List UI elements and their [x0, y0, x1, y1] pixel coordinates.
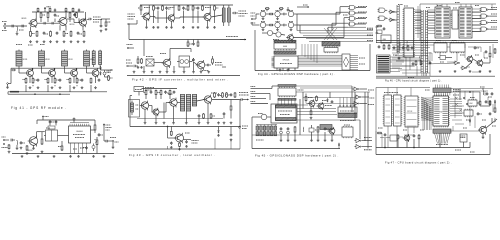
- wire - panel C bottom rail: [127, 75, 240, 77]
- svg-text:Fig 43 - GPS IF converter , lo: Fig 43 - GPS IF converter , local oscill…: [129, 153, 215, 157]
- transistor Q71: [318, 103, 324, 109]
- ground - panel B bottom grounds: [21, 155, 23, 156]
- diode D10: [327, 100, 329, 102]
- wire - H address fan diagonal: [421, 97, 432, 101]
- resistor R53: [169, 90, 171, 91]
- crystal X90 left: [377, 30, 382, 34]
- transistor Q51 buffer: [153, 109, 159, 115]
- coil L90 right row: [482, 90, 485, 92]
- resistor R95 right: [479, 100, 481, 101]
- input terminal panel B: [3, 139, 5, 141]
- capacitor C57 mid: [223, 112, 225, 113]
- resistor R36: [202, 5, 204, 6]
- resistor R56 right: [222, 92, 224, 93]
- transistor Q91: [477, 60, 483, 66]
- IC U32 DIP 4046: [274, 43, 296, 49]
- panel C : IF converter multiplier and mixer: [0, 0, 1, 1]
- wire - data bus panel E: [298, 55, 342, 57]
- resistor R1a above rail: [37, 7, 39, 10]
- ground - panel D mid: [144, 122, 146, 123]
- wire - crossing mesh: [324, 28, 334, 40]
- label - CN6: [453, 89, 461, 91]
- resistor R13 row2: [25, 78, 27, 79]
- wire - H bottom-left links: [380, 137, 390, 139]
- wire - RF input lead: [3, 25, 27, 27]
- transistor Q3 IF amp: [27, 70, 34, 77]
- connector block CN5 ribbon (dark): [377, 55, 391, 73]
- gate G27 right: [481, 27, 487, 31]
- wire - G bus DIP feeds: [428, 9, 435, 11]
- resistor R15 row2: [47, 78, 49, 79]
- pin hatch - above U20: [69, 124, 71, 126]
- wire - panel B top rail: [37, 119, 95, 121]
- capacitor C8 bias row: [56, 32, 58, 33]
- label - under IC pins: [73, 148, 77, 150]
- resistor R20 input shunt: [8, 144, 10, 145]
- gate G10 left: [261, 114, 267, 120]
- transistor Q2b third RF stage: [80, 19, 87, 26]
- IC U53 narrow mid: [452, 10, 458, 29]
- resistor R18 row2: [76, 78, 78, 79]
- label - panel F input stubs: [251, 86, 256, 88]
- diode D2 detector: [100, 73, 102, 75]
- wire - panel F bottom rail: [252, 148, 340, 150]
- wire - H DIP bottom drops: [387, 126, 389, 148]
- resistor R70 row1: [268, 13, 271, 15]
- wire - panel D bottom rail: [130, 126, 240, 128]
- wire - row2 verticals to rail: [25, 85, 27, 92]
- mixer Q66 mid: [291, 14, 293, 16]
- internal hatch - U61: [395, 98, 400, 100]
- resistor R92 above CN5: [388, 44, 390, 45]
- capacitor C94 mid lower: [402, 46, 404, 47]
- svg-text:M1331: M1331: [45, 59, 50, 61]
- ground - under L1: [16, 33, 18, 34]
- transistor Q69 lower left: [288, 35, 294, 41]
- panel G : CPU board circuit part 1: [0, 0, 1, 1]
- wire - G top supply rail: [420, 3, 496, 5]
- coil L51 hatched: [186, 95, 190, 112]
- wire - Q34 collector up: [169, 49, 171, 61]
- transistor Q96 bottom left: [404, 135, 410, 141]
- coil L52 hatched: [192, 95, 196, 107]
- oscillator stage Q60 row1: [260, 11, 265, 16]
- transistor Q1 BF981 RF amp: [30, 20, 37, 27]
- wire - row1 feed: [253, 18, 256, 20]
- transistor Q35 lower output: [197, 61, 205, 69]
- wire - row2 bottom rail: [8, 91, 107, 93]
- pin hatch left of U34: [272, 56, 275, 58]
- label - bus right ticks: [367, 29, 373, 31]
- coil L2 (slim can): [92, 51, 95, 65]
- transistor Q2 BF959 second RF amp: [59, 18, 67, 26]
- resistor R54a: [168, 96, 170, 98]
- IF transformer T4 (hatched can): [84, 51, 90, 66]
- capacitor C50: [150, 91, 152, 92]
- wire - interstage line: [37, 22, 59, 24]
- capacitor C36 lower left: [133, 65, 135, 68]
- gate G26 right: [481, 21, 487, 25]
- coil L50 hatched: [180, 95, 184, 112]
- label - stage scribbles row2: [261, 21, 265, 23]
- wire - G address bus tall IC to DIPs: [415, 9, 421, 11]
- IF transformer T1 (hatched can): [16, 51, 22, 66]
- resistor R97 bottom left: [376, 132, 379, 134]
- label - panel E input left: [251, 12, 256, 14]
- capacitor C70a bottom: [280, 127, 282, 128]
- ground - panel G bottoms: [439, 70, 441, 71]
- transistor Q54 divider: [176, 134, 184, 142]
- IC U36 small DIP right: [324, 48, 338, 53]
- wire - panel D mid links: [149, 105, 152, 107]
- label - 1PPS output: [192, 140, 199, 142]
- svg-text:BF981: BF981: [22, 18, 27, 20]
- resistor R19 row2: [90, 78, 92, 79]
- wire - feeds into U40: [262, 88, 272, 90]
- resistor R61 bottom: [170, 130, 172, 133]
- gate G12 output inverter: [356, 145, 360, 149]
- capacitor C52a: [173, 91, 175, 92]
- wire - U34 drops to rail: [276, 68, 278, 71]
- resistor R16 row2: [54, 78, 56, 79]
- supply arrow right: [103, 124, 105, 128]
- IC U51 tall CPU 80C32: [404, 8, 414, 57]
- capacitor C95 right: [486, 92, 488, 93]
- resistor R14 row2: [32, 78, 34, 79]
- transistor Q30 oscillator: [143, 13, 150, 20]
- svg-text:BF981: BF981: [28, 150, 33, 152]
- supply arrow +9V: [44, 8, 46, 13]
- label - lower left cluster: [126, 59, 131, 61]
- resistor R9 bias row: [50, 31, 52, 32]
- resistor R50: [145, 90, 147, 91]
- IF transformer T3 (hatched can): [62, 51, 68, 66]
- label - mid rail arrow to RF module: [226, 36, 238, 38]
- IC U65 small right2: [464, 110, 473, 116]
- resistor R33: [178, 5, 180, 6]
- svg-text:V40: V40: [439, 111, 442, 113]
- transistor Q95 right mid: [480, 127, 487, 134]
- resistor R5 under rail: [76, 11, 78, 14]
- capacitor C5 output coupling: [88, 18, 90, 21]
- capacitor C12 row2: [59, 79, 61, 80]
- resistor R96a mid lower: [420, 59, 422, 62]
- capacitor C98G middle: [398, 57, 400, 58]
- wire - panel E bottom rail: [255, 70, 370, 72]
- transistor Q90: [467, 56, 473, 62]
- diode D21 H right: [469, 120, 471, 122]
- capacitor C9 bias row: [77, 32, 79, 33]
- label - to IF converter text block: [93, 16, 101, 18]
- panel A : GPS RF module schematic: [0, 0, 1, 1]
- wire - output line from Q2: [67, 18, 74, 20]
- filter FL2 double-tuned box: [179, 56, 190, 67]
- wire - G middle scratch wires: [392, 52, 432, 54]
- input terminal panel C: [128, 23, 130, 25]
- pin hatch above U32: [274, 40, 296, 42]
- resistor R52: [160, 90, 162, 91]
- capacitor C3 under rail: [54, 14, 56, 15]
- wire - divider drop: [167, 127, 169, 139]
- resistor R17 row2: [69, 78, 71, 79]
- svg-text:Fig 46 - CPU board circuit dia: Fig 46 - CPU board circuit diagram ( par…: [385, 80, 442, 83]
- wire - Q32 collector: [209, 5, 211, 14]
- capacitor C91 above CN5: [378, 45, 380, 46]
- label - G right gate output scribbles: [491, 7, 497, 9]
- capacitor C53 right: [218, 93, 220, 94]
- capacitor C90 left: [383, 27, 385, 28]
- resistor R71 above row1: [264, 8, 267, 10]
- ground - panel F: [280, 139, 282, 140]
- diode D1 detector: [100, 68, 102, 70]
- wire - panel H bottom rails: [376, 147, 470, 149]
- diode D20 right: [494, 101, 496, 103]
- label - CN7 fanout: [436, 144, 448, 146]
- panel F : GPS/GLONASS DSP hardware part 2: [0, 0, 1, 1]
- module box U41 outline: [271, 104, 297, 123]
- IC U44 inner DIP bottom pin hatch: [276, 118, 297, 121]
- wire - bus verticals: [301, 44, 303, 56]
- label - H right scribbles: [466, 119, 470, 121]
- transistor Q70: [309, 101, 315, 107]
- wire - verticals to bottom rail: [41, 132, 43, 136]
- transistor Q72 bottom mid: [329, 128, 335, 134]
- resistor R1c above rail: [65, 7, 67, 10]
- resistor R22 vertical: [41, 138, 43, 139]
- panel H : CPU board circuit part 2: [0, 0, 1, 1]
- ground - row2 grounds: [29, 86, 31, 87]
- transistor Q31 buffer multiplier: [168, 15, 174, 21]
- resistor R42 output lower: [212, 58, 214, 59]
- capacitor C60 bottom right: [230, 133, 232, 134]
- capacitor C35 hanging mid: [193, 42, 195, 43]
- label - lower output text: [215, 62, 222, 64]
- capacitor C38 output lower: [205, 64, 208, 66]
- svg-text:Fig 41 - GPS RF module .: Fig 41 - GPS RF module .: [11, 106, 67, 110]
- transistor Q32 mixer stage: [204, 14, 211, 21]
- diode D50 bottom right: [218, 131, 220, 133]
- wire - right mid link: [450, 130, 479, 132]
- electrolytic C27: [92, 145, 95, 148]
- capacitor C10 input row2: [11, 69, 13, 71]
- diode marks - H right of V40: [455, 97, 458, 100]
- svg-text:4046: 4046: [283, 46, 287, 48]
- capacitor C4 under rail: [74, 13, 76, 14]
- gate G20 top left: [379, 8, 385, 13]
- connector CN1 with diamond: [342, 54, 350, 70]
- choke L31 slim hatched: [228, 8, 231, 22]
- IC U34 GP2021 correlator: [274, 56, 298, 68]
- inductor L20: [16, 141, 19, 142]
- IC U63 V40 CPU square: [433, 96, 449, 126]
- label - U60 U61: [384, 92, 398, 94]
- wire - U45 top verticals with dots: [339, 98, 341, 108]
- capacitor C97 bottom left: [384, 133, 386, 134]
- resistor R39 hanging mid: [197, 41, 199, 42]
- resistor R51: [155, 90, 157, 91]
- resistor R38 hanging mid: [187, 41, 189, 42]
- svg-text:Fig 47 - CPU board circuit dia: Fig 47 - CPU board circuit diagram ( par…: [385, 161, 452, 165]
- dark streak on bottom rail: [10, 91, 19, 93]
- capacitor C73: [331, 100, 333, 101]
- connector strip CN3 mid: [420, 10, 422, 73]
- IC U55 mid DIP: [434, 43, 447, 52]
- svg-text:M1331: M1331: [68, 59, 73, 61]
- resistor R21 source: [26, 145, 28, 146]
- stage Q68 lower left: [276, 32, 281, 37]
- capacitor C95a mid lower: [411, 46, 413, 47]
- wire - panel D lowest rail: [128, 148, 240, 150]
- resistor R59 mid: [210, 113, 212, 114]
- IC U61 vertical RAM left2: [394, 95, 402, 126]
- resistor R58 mid: [203, 113, 205, 114]
- output terminal row2: [111, 69, 113, 71]
- crystal X70 bottom: [309, 128, 314, 132]
- buffer stage Q61 row1: [275, 11, 280, 16]
- resistor R12 bias row: [83, 31, 85, 32]
- ground - panel C lower: [133, 71, 135, 72]
- label - inside shield: [136, 104, 139, 106]
- resistor R62 under Q54: [179, 141, 181, 144]
- resistor R82 bottom: [294, 126, 296, 127]
- resistor R97G right lower: [494, 48, 496, 49]
- capacitor C24 on U20 top: [73, 118, 75, 119]
- capacitor C33: [197, 7, 199, 8]
- mixer M1 box with cross: [146, 59, 154, 66]
- wire - panel E gate feeds: [297, 13, 340, 15]
- wire - panel F horizontals: [296, 85, 352, 87]
- transistor Q50 osc: [141, 102, 148, 109]
- capacitor C28 bottom: [86, 146, 88, 147]
- gate G15 inverter mid right: [354, 102, 358, 106]
- capacitor C26 output coupling: [104, 140, 106, 142]
- inverter G23 left: [390, 18, 393, 22]
- resistor R80: [305, 96, 307, 97]
- capacitor C20 decoupling: [49, 120, 51, 121]
- capacitor C30: [157, 7, 159, 8]
- IC U33 hatched row: [274, 51, 296, 54]
- stage Q67 lower left: [267, 30, 272, 35]
- wire - row2 interconnect: [18, 68, 20, 73]
- resistor R35: [192, 5, 194, 6]
- potentiometer RV50: [226, 92, 228, 93]
- crystal Y50 inside shield: [131, 103, 134, 112]
- wire - H V40 right bundle: [450, 98, 462, 100]
- resistor R84 under Q70: [310, 109, 312, 112]
- wire - CN7 fanout: [435, 133, 438, 143]
- resistor R1b above rail: [49, 7, 51, 10]
- wire - panel B bottom rail: [12, 153, 114, 155]
- capacitor C71 above row1: [287, 8, 289, 9]
- capacitor C93 lower mid: [429, 61, 431, 62]
- transistor Q6 IF amp: [92, 70, 99, 77]
- svg-text:27C512: 27C512: [407, 111, 412, 113]
- capacitor C2a interstage: [43, 22, 45, 25]
- pin stubs - U20 bottom pins: [70, 143, 72, 154]
- capacitor C101H right: [489, 112, 491, 113]
- resistor R40 lower left: [137, 58, 139, 59]
- capacitor C51: [165, 91, 167, 92]
- potentiometer RV1 volume: [96, 139, 98, 140]
- capacitor C98 bottom: [413, 134, 415, 135]
- wire - G mid column verticals: [397, 45, 399, 55]
- capacitor C71a bottom: [287, 127, 289, 128]
- capacitor C6 output shunt: [100, 19, 102, 24]
- resistor R81: [316, 96, 318, 97]
- gate G11 output inverter: [356, 139, 360, 143]
- wire - row2 feed: [251, 22, 253, 25]
- IC U43 inner DIP body: [276, 105, 297, 121]
- wire - H top rail: [376, 87, 430, 89]
- capacitor C2b interstage: [51, 22, 53, 25]
- gate G28 lower: [455, 61, 458, 65]
- capacitor C56 mid: [198, 114, 200, 115]
- wire - Q30 collector: [148, 5, 150, 14]
- gate G25 right: [481, 14, 486, 18]
- label - H scribbles: [425, 89, 430, 91]
- resistor network RN1 array: [256, 126, 259, 130]
- output terminal panel B: [112, 140, 114, 142]
- IC U60 vertical RAM left: [384, 95, 392, 126]
- wire - H left bus verticals: [422, 98, 424, 130]
- stage Q64 row2: [275, 22, 280, 27]
- input terminal - cans row: [7, 83, 9, 85]
- wire - inner DIP stubs: [277, 99, 279, 105]
- wire - panel C top rail: [140, 4, 233, 6]
- capacitor C32: [183, 7, 185, 8]
- resistor R99 bottom: [418, 134, 420, 135]
- resistor R93 lower mid: [415, 60, 417, 61]
- wire - G pinbar continuation verticals: [421, 73, 423, 76]
- wire - Q31 collector: [173, 5, 175, 16]
- ground - row under first stage: [30, 40, 32, 41]
- wire - panel D mid rail: [137, 118, 223, 120]
- gate G21 left: [379, 16, 385, 21]
- label - IF output right text block: [239, 92, 248, 94]
- wire - G lower horizontals: [392, 44, 434, 46]
- gate G2 NAND right: [350, 11, 355, 15]
- gate G3 NAND right: [350, 17, 355, 21]
- gate G24 right: [481, 8, 487, 12]
- coil L70 bottom: [302, 127, 305, 129]
- capacitor C99G middle: [412, 62, 414, 63]
- resistor R23 right of IC: [94, 124, 96, 125]
- stage Q65 row2: [288, 22, 293, 27]
- label - supply out right: [239, 127, 241, 129]
- capacitor C23: [20, 141, 22, 142]
- label - under ground row A: [16, 44, 22, 46]
- resistor R73 row2: [268, 24, 271, 26]
- IC U62 vertical EPROM: [405, 96, 418, 127]
- svg-text:Fig 42 - GPS IF converter , mu: Fig 42 - GPS IF converter , multiplier a…: [132, 78, 229, 82]
- wire - panel G lower interconnects: [390, 59, 421, 61]
- label - G top scribbles: [437, 5, 442, 7]
- resistor R60 mid right: [230, 105, 232, 106]
- capacitor C72 row2: [283, 24, 285, 27]
- IC U35 hatched DIP right: [322, 42, 340, 47]
- svg-text:Fig 45 - GPS/GLONASS DSP hardw: Fig 45 - GPS/GLONASS DSP hardware ( part…: [255, 153, 339, 157]
- internal hatch - U62: [407, 99, 417, 101]
- coil L91H right: [494, 118, 497, 119]
- wire - CN6 verticals above: [435, 85, 437, 89]
- resistor R37: [214, 5, 216, 6]
- wire - filter to IC: [60, 135, 69, 137]
- IC U42 inner DIP top pin hatch: [276, 105, 297, 108]
- resistor R10 bias row: [63, 31, 65, 32]
- stage Q62 row1: [288, 11, 293, 16]
- IC U54 big DIP right with pin hatch: [459, 7, 472, 38]
- resistor R4 under rail: [69, 11, 71, 14]
